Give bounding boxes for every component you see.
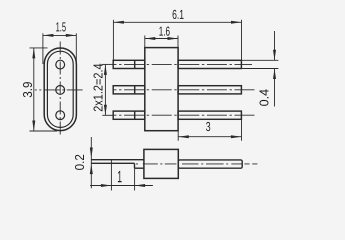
- svg-text:0.2: 0.2: [72, 154, 87, 170]
- svg-text:1: 1: [117, 168, 122, 186]
- svg-text:1.5: 1.5: [56, 19, 66, 34]
- svg-text:3: 3: [206, 119, 211, 134]
- svg-text:2x1.2=2.4: 2x1.2=2.4: [91, 63, 106, 111]
- svg-text:6.1: 6.1: [172, 7, 184, 22]
- svg-text:1.6: 1.6: [159, 24, 170, 39]
- svg-text:0.4: 0.4: [257, 89, 272, 107]
- svg-text:3.9: 3.9: [20, 82, 35, 98]
